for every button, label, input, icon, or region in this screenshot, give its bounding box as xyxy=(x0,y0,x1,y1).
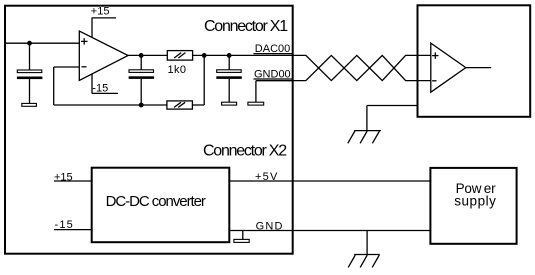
label Connector X2 xyxy=(203,143,287,160)
svg-text:-15: -15 xyxy=(92,82,108,94)
ground terminal bar (GND00) xyxy=(248,102,264,105)
wire (R1 to connector X1 pin DAC00) xyxy=(193,54,293,56)
wire (GND net to earth) xyxy=(366,231,368,255)
svg-text:Connector X2: Connector X2 xyxy=(203,143,287,160)
op-amp U2 xyxy=(431,43,491,92)
wire (GND00 net) xyxy=(256,81,293,103)
svg-text:GND: GND xyxy=(256,220,284,232)
capacitor C3 xyxy=(216,55,242,102)
wire (GND stub to ground bar) xyxy=(242,231,244,240)
pin label GND xyxy=(256,220,284,232)
wire (GND net) xyxy=(229,230,430,232)
label Connector X1 xyxy=(204,18,288,35)
svg-text:supply: supply xyxy=(454,193,496,208)
wire (feedback to U1 -) xyxy=(54,67,167,105)
svg-text:DC-DC converter: DC-DC converter xyxy=(106,193,206,210)
power supply unit xyxy=(430,168,516,244)
wire (receiver chassis to earth) xyxy=(367,106,418,131)
pin label +5V xyxy=(255,171,278,183)
pin label -15 (X2) xyxy=(54,219,92,231)
svg-text:Connector X1: Connector X1 xyxy=(204,18,288,35)
earth ground symbol (lower) xyxy=(348,255,380,268)
node (input junction) xyxy=(27,41,32,46)
capacitor C1 xyxy=(17,43,43,103)
enclosure box (receiver unit) xyxy=(418,5,531,117)
enclosure box (transmitter unit) xyxy=(5,6,293,254)
-15 supply rail (U1) xyxy=(92,74,118,95)
node (R2 tap junction) xyxy=(202,53,207,58)
resistor R1 1k0 xyxy=(167,51,192,76)
wire (+5V net) xyxy=(229,180,430,182)
op-amp U1 xyxy=(79,31,128,80)
wire (input to op-amp U1 +) xyxy=(5,42,79,44)
svg-text:1k0: 1k0 xyxy=(168,64,187,76)
pin label GND00 xyxy=(254,69,293,81)
node (output junction) xyxy=(139,53,144,58)
svg-text:+5V: +5V xyxy=(255,171,278,183)
ground terminal bar (GND net) xyxy=(234,239,249,242)
capacitor C2 xyxy=(129,55,155,105)
wire (U1 output) xyxy=(128,54,167,56)
+15 supply rail (U1) xyxy=(91,6,116,38)
ground terminal bar (C3) xyxy=(222,102,237,105)
twisted pair wire A (DAC00) xyxy=(293,55,431,80)
pin label +15 (X2) xyxy=(54,171,92,183)
DC-DC converter module xyxy=(92,168,230,243)
node (C3 junction) xyxy=(227,53,232,58)
pin label DAC00 xyxy=(254,43,293,55)
ground terminal bar (C1) xyxy=(22,103,37,106)
resistor R2 (feedback) xyxy=(167,55,204,109)
twisted pair wire B (GND00) xyxy=(293,55,431,80)
node (lower wire / C2 junction) xyxy=(139,103,144,108)
svg-text:+15: +15 xyxy=(91,6,110,18)
earth ground symbol (upper) xyxy=(348,131,381,144)
